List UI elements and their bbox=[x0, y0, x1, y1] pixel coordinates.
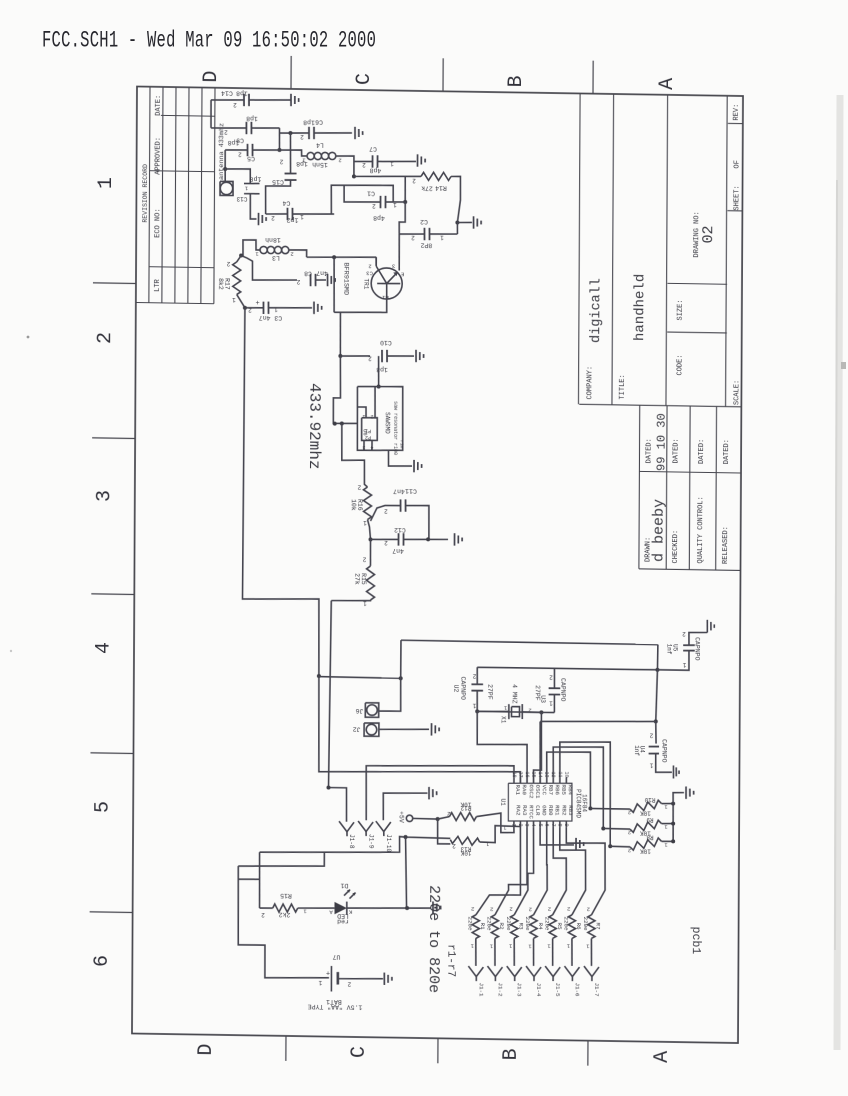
svg-text:R1: R1 bbox=[479, 923, 486, 931]
svg-text:R3: R3 bbox=[517, 923, 524, 931]
svg-text:CAPNPO: CAPNPO bbox=[459, 677, 466, 701]
ground bbox=[291, 94, 299, 107]
svg-text:2: 2 bbox=[357, 483, 361, 490]
svg-text:1: 1 bbox=[508, 943, 512, 950]
svg-text:D1: D1 bbox=[340, 882, 348, 889]
svg-text:2: 2 bbox=[370, 413, 373, 419]
saw resonator U6 SAWSMD bbox=[357, 386, 405, 455]
svg-text:REV:: REV: bbox=[733, 104, 741, 121]
svg-text:J1-1: J1-1 bbox=[478, 983, 485, 998]
svg-text:1: 1 bbox=[586, 943, 590, 950]
svg-text:2: 2 bbox=[529, 906, 532, 913]
svg-text:antenna 433mhz: antenna 433mhz bbox=[218, 123, 226, 180]
capacitor C9 bbox=[211, 114, 280, 144]
wire C6 branch bbox=[279, 131, 309, 135]
svg-text:2: 2 bbox=[94, 332, 117, 344]
resistor R16 10k bbox=[350, 483, 373, 541]
svg-text:J1-4: J1-4 bbox=[535, 983, 542, 998]
ground bbox=[673, 765, 679, 778]
wire long left bbox=[242, 308, 323, 678]
wire RB5 riser bbox=[559, 741, 610, 846]
svg-text:CHECKED:: CHECKED: bbox=[672, 530, 680, 564]
svg-text:2: 2 bbox=[261, 911, 265, 918]
svg-text:RB6: RB6 bbox=[554, 785, 561, 796]
svg-text:r1m: r1m bbox=[399, 440, 405, 448]
svg-text:U3: U3 bbox=[539, 695, 546, 703]
svg-text:d beeby: d beeby bbox=[651, 499, 668, 562]
svg-text:saw resonator r100: saw resonator r100 bbox=[392, 401, 398, 455]
ground bbox=[327, 274, 335, 287]
svg-text:C15: C15 bbox=[272, 178, 284, 185]
svg-text:DATED:: DATED: bbox=[723, 439, 731, 464]
ground bbox=[431, 723, 439, 736]
svg-text:2k2: 2k2 bbox=[279, 911, 291, 918]
ground bbox=[686, 786, 694, 799]
svg-text:C11: C11 bbox=[405, 487, 417, 494]
svg-text:C1: C1 bbox=[367, 189, 375, 196]
svg-text:2: 2 bbox=[372, 202, 376, 209]
svg-text:2: 2 bbox=[226, 260, 230, 267]
wire to RA0 bbox=[318, 676, 521, 783]
svg-text:10K: 10K bbox=[460, 849, 471, 856]
svg-text:C12: C12 bbox=[394, 526, 406, 533]
svg-text:C10: C10 bbox=[380, 339, 392, 346]
svg-text:R9: R9 bbox=[646, 816, 654, 823]
svg-text:2: 2 bbox=[238, 150, 242, 157]
svg-text:1: 1 bbox=[95, 177, 118, 189]
svg-text:U7: U7 bbox=[332, 953, 340, 960]
connector J1-8 bbox=[339, 821, 355, 849]
zone ticks bottom bbox=[286, 1036, 588, 1066]
svg-text:SHEET:: SHEET: bbox=[733, 185, 741, 210]
svg-text:10K: 10K bbox=[640, 847, 651, 854]
wire bbox=[277, 128, 281, 152]
svg-text:J1-5: J1-5 bbox=[554, 983, 561, 998]
svg-text:1p8: 1p8 bbox=[246, 115, 258, 122]
svg-text:1p8: 1p8 bbox=[236, 89, 248, 96]
wire to R2 bbox=[495, 826, 527, 915]
svg-text:P2: P2 bbox=[365, 434, 371, 440]
svg-text:J1-7: J1-7 bbox=[593, 983, 600, 998]
svg-text:C2: C2 bbox=[420, 218, 428, 225]
svg-text:C6: C6 bbox=[315, 118, 323, 125]
resistor R15 27k bbox=[331, 539, 375, 607]
zone ticks left bbox=[90, 283, 136, 913]
svg-text:L4: L4 bbox=[316, 141, 324, 148]
svg-text:RB5: RB5 bbox=[560, 785, 567, 796]
svg-text:1: 1 bbox=[682, 661, 686, 668]
svg-text:2: 2 bbox=[548, 906, 551, 913]
resistor R10 10K bbox=[588, 795, 673, 817]
capacitor C7 bbox=[354, 145, 416, 174]
svg-text:02: 02 bbox=[700, 225, 717, 243]
svg-text:2: 2 bbox=[271, 214, 275, 221]
wire RB7 riser bbox=[546, 751, 590, 808]
svg-text:1: 1 bbox=[318, 979, 322, 986]
svg-text:TR1: TR1 bbox=[362, 278, 369, 289]
zone ticks top bbox=[291, 56, 593, 94]
svg-text:2: 2 bbox=[411, 234, 415, 241]
svg-text:B1: B1 bbox=[381, 294, 388, 301]
revision record table bbox=[136, 87, 215, 304]
svg-text:RB1: RB1 bbox=[554, 805, 561, 816]
svg-text:1: 1 bbox=[393, 201, 397, 208]
svg-text:C7: C7 bbox=[369, 145, 377, 152]
svg-text:J2: J2 bbox=[353, 726, 361, 733]
connector J1-6 bbox=[564, 966, 580, 997]
resistor R9 10K bbox=[601, 815, 673, 837]
ground bbox=[454, 533, 462, 546]
svg-text:10: 10 bbox=[563, 772, 569, 778]
svg-text:4p8: 4p8 bbox=[373, 214, 385, 221]
wire J1-10 to ground bbox=[383, 792, 427, 820]
svg-text:3: 3 bbox=[362, 444, 365, 450]
connector J1-2 bbox=[487, 966, 503, 997]
svg-text:GND: GND bbox=[541, 805, 548, 816]
capacitor C2 8P2 bbox=[399, 202, 458, 249]
svg-text:X1: X1 bbox=[499, 716, 506, 724]
capacitor C14 bbox=[211, 89, 291, 109]
svg-text:2: 2 bbox=[549, 674, 553, 681]
svg-text:U4: U4 bbox=[639, 746, 646, 754]
resistor R13 10K bbox=[437, 819, 520, 857]
svg-text:C14: C14 bbox=[221, 89, 233, 96]
svg-text:220e: 220e bbox=[563, 917, 570, 932]
svg-text:2: 2 bbox=[649, 731, 653, 738]
svg-text:1: 1 bbox=[547, 943, 551, 950]
svg-text:2: 2 bbox=[279, 158, 283, 165]
svg-text:R5: R5 bbox=[556, 923, 563, 931]
wire bbox=[223, 150, 227, 171]
resistor R14 27k bbox=[354, 171, 461, 225]
svg-text:5: 5 bbox=[92, 801, 115, 813]
svg-text:1: 1 bbox=[549, 700, 553, 707]
svg-text:220e to 820e: 220e to 820e bbox=[425, 885, 443, 993]
svg-text:+: + bbox=[326, 971, 330, 979]
capacitor C10 1p8 bbox=[340, 338, 414, 373]
svg-text:2: 2 bbox=[412, 177, 416, 184]
svg-text:1p8: 1p8 bbox=[228, 139, 240, 146]
svg-text:220e: 220e bbox=[524, 917, 531, 932]
svg-text:2: 2 bbox=[233, 101, 237, 108]
resistor R3 220e bbox=[505, 905, 525, 966]
node U5 bbox=[655, 645, 659, 672]
antenna ANT1 433mhz bbox=[218, 123, 233, 196]
wire J1-8 drop bbox=[326, 601, 347, 822]
svg-text:J1-9: J1-9 bbox=[367, 834, 374, 849]
capacitor C1 4p8 bbox=[344, 175, 407, 221]
svg-text:REVISION RECORD: REVISION RECORD bbox=[142, 164, 149, 223]
connector J1-10 bbox=[376, 821, 392, 852]
svg-text:DATED:: DATED: bbox=[673, 438, 681, 463]
svg-text:1: 1 bbox=[255, 250, 259, 257]
svg-text:D: D bbox=[200, 70, 223, 82]
node +5V bbox=[398, 811, 440, 823]
ground bbox=[433, 901, 441, 914]
svg-text:2: 2 bbox=[300, 133, 304, 140]
svg-text:1: 1 bbox=[300, 213, 304, 220]
zone numerals left bbox=[91, 177, 118, 967]
svg-text:1: 1 bbox=[470, 942, 474, 949]
svg-text:VCC: VCC bbox=[541, 784, 548, 795]
capacitor U2 27PF CAPNPO bbox=[452, 672, 493, 709]
connector J1-7 bbox=[584, 966, 600, 997]
svg-text:BFR91SMD: BFR91SMD bbox=[342, 262, 350, 295]
svg-text:2: 2 bbox=[384, 539, 388, 546]
svg-text:8P2: 8P2 bbox=[421, 241, 433, 248]
svg-text:1p8: 1p8 bbox=[303, 118, 315, 125]
svg-text:R2: R2 bbox=[498, 923, 505, 931]
svg-text:2: 2 bbox=[490, 906, 493, 913]
svg-text:U2: U2 bbox=[453, 685, 460, 693]
label pcb1 bbox=[689, 927, 702, 955]
svg-text:r1-r7: r1-r7 bbox=[444, 944, 456, 977]
svg-text:SAWSMD: SAWSMD bbox=[384, 412, 391, 434]
connector J1-9 bbox=[358, 821, 375, 849]
svg-text:99 10 30: 99 10 30 bbox=[655, 413, 669, 471]
IC U1 PIC84SMD 16F84 bbox=[499, 771, 588, 829]
svg-text:J1-3: J1-3 bbox=[516, 983, 523, 998]
wire to R1 bbox=[476, 826, 521, 915]
wire antenna rail bbox=[210, 100, 212, 128]
capacitor C12 4n7 bbox=[370, 526, 448, 555]
resistor R2 220e bbox=[485, 905, 505, 966]
svg-text:4n7: 4n7 bbox=[393, 487, 405, 494]
svg-text:4n7: 4n7 bbox=[316, 269, 328, 276]
svg-text:1: 1 bbox=[362, 413, 365, 419]
svg-text:16: 16 bbox=[524, 772, 530, 778]
svg-text:A: A bbox=[656, 78, 679, 90]
svg-text:CLR: CLR bbox=[534, 805, 541, 816]
svg-text:2: 2 bbox=[509, 906, 512, 913]
ground bbox=[388, 450, 421, 472]
capacitor C11 4n7 bbox=[370, 487, 429, 540]
svg-text:CAPNPO: CAPNPO bbox=[559, 678, 566, 702]
svg-text:1: 1 bbox=[363, 519, 367, 526]
svg-text:R6: R6 bbox=[575, 923, 582, 931]
svg-text:2: 2 bbox=[384, 508, 388, 515]
svg-text:C3: C3 bbox=[366, 269, 373, 276]
svg-text:R15: R15 bbox=[280, 892, 292, 899]
svg-text:1: 1 bbox=[472, 702, 476, 709]
svg-text:4: 4 bbox=[92, 642, 115, 654]
capacitor C13 bbox=[225, 169, 262, 220]
svg-text:COMPANY:: COMPANY: bbox=[586, 366, 594, 400]
capacitor C15 bbox=[265, 133, 308, 215]
svg-text:A: A bbox=[651, 1051, 674, 1063]
connector J1-5 bbox=[545, 966, 561, 997]
title block texts bbox=[585, 101, 742, 564]
inductor L3 18nh bbox=[241, 236, 307, 262]
svg-text:LTR: LTR bbox=[154, 278, 162, 292]
svg-text:17: 17 bbox=[517, 772, 523, 778]
svg-text:handheld: handheld bbox=[632, 274, 648, 341]
wire battery loop bbox=[238, 832, 451, 980]
capacitor U3 27PF CAPNPO bbox=[534, 668, 567, 713]
svg-text:C: C bbox=[353, 73, 376, 85]
wire bbox=[331, 184, 393, 215]
svg-text:A: A bbox=[329, 909, 333, 916]
svg-text:C3 4n7: C3 4n7 bbox=[259, 314, 283, 321]
svg-text:220e: 220e bbox=[467, 917, 474, 932]
svg-text:5: 5 bbox=[537, 824, 543, 827]
capacitor C5 bbox=[225, 139, 279, 163]
svg-text:J1-2: J1-2 bbox=[497, 983, 504, 998]
connector J1-3 bbox=[507, 966, 523, 997]
resistor R5 220e bbox=[543, 905, 563, 966]
svg-text:RA2: RA2 bbox=[514, 805, 521, 816]
svg-text:2: 2 bbox=[587, 906, 590, 913]
svg-text:C8: C8 bbox=[304, 269, 312, 276]
capacitor C3 4n7 polarized bbox=[243, 300, 312, 322]
svg-text:C5: C5 bbox=[247, 155, 255, 162]
zone letters bottom bbox=[195, 1043, 674, 1063]
wire TR1 collector bbox=[398, 234, 400, 271]
svg-text:J1-6: J1-6 bbox=[574, 983, 581, 998]
node saw top bbox=[377, 356, 381, 389]
svg-text:4: 4 bbox=[370, 444, 373, 450]
resistor R8 10K bbox=[608, 833, 673, 855]
svg-text:1: 1 bbox=[440, 234, 444, 241]
svg-text:1: 1 bbox=[244, 184, 248, 191]
svg-text:RB0: RB0 bbox=[547, 805, 554, 816]
svg-text:2: 2 bbox=[368, 262, 371, 269]
ground bbox=[707, 620, 714, 633]
svg-text:2: 2 bbox=[248, 306, 252, 313]
svg-text:P1: P1 bbox=[365, 428, 371, 434]
svg-text:4p8: 4p8 bbox=[370, 166, 382, 173]
svg-text:2: 2 bbox=[471, 906, 474, 913]
svg-text:digicall: digicall bbox=[589, 278, 604, 343]
svg-text:27PF: 27PF bbox=[486, 684, 493, 700]
svg-text:4: 4 bbox=[530, 824, 536, 827]
connector J1-4 bbox=[526, 966, 542, 997]
LED D1 red bbox=[329, 882, 431, 926]
wire cross link bbox=[319, 675, 403, 680]
svg-text:L3: L3 bbox=[272, 254, 280, 261]
svg-text:RB2: RB2 bbox=[560, 805, 567, 816]
svg-text:SCALE:: SCALE: bbox=[733, 380, 741, 405]
svg-text:APPROVED:: APPROVED: bbox=[155, 137, 163, 175]
svg-text:3: 3 bbox=[524, 824, 530, 827]
svg-text:CAPNPO: CAPNPO bbox=[693, 637, 700, 661]
title block bbox=[578, 93, 743, 570]
svg-text:CODE:: CODE: bbox=[677, 354, 685, 375]
svg-text:B: B bbox=[500, 1048, 523, 1060]
svg-text:220e: 220e bbox=[543, 917, 550, 932]
big label 433.92mhz bbox=[305, 383, 323, 470]
svg-text:1: 1 bbox=[390, 160, 394, 167]
svg-text:R15: R15 bbox=[360, 573, 367, 585]
svg-text:C4: C4 bbox=[282, 199, 290, 206]
wire crystal rails bbox=[475, 667, 657, 716]
svg-text:QUALITY CONTROL:: QUALITY CONTROL: bbox=[697, 496, 705, 563]
svg-text:R8: R8 bbox=[646, 834, 654, 841]
svg-text:1: 1 bbox=[503, 705, 507, 712]
pad J2 bbox=[353, 723, 429, 738]
svg-text:220e: 220e bbox=[582, 917, 589, 932]
svg-text:RB7: RB7 bbox=[547, 784, 554, 795]
svg-text:DATE:: DATE: bbox=[155, 95, 163, 116]
ground bbox=[258, 213, 266, 226]
svg-text:J6: J6 bbox=[355, 707, 363, 714]
svg-text:pcb1: pcb1 bbox=[689, 927, 702, 955]
ground bbox=[355, 127, 363, 140]
battery BAT1 1.5V bbox=[308, 953, 384, 1011]
svg-text:U1: U1 bbox=[499, 799, 506, 807]
svg-text:1nf: 1nf bbox=[666, 644, 673, 655]
capacitor U5 1nf CAPNPO bbox=[657, 630, 707, 671]
wire J1-9 to RA1 bbox=[366, 763, 514, 822]
svg-text:14: 14 bbox=[537, 772, 543, 778]
svg-text:R14: R14 bbox=[435, 184, 447, 191]
svg-text:RTCC: RTCC bbox=[528, 805, 535, 820]
ground bbox=[429, 787, 437, 800]
svg-text:CAPNPO: CAPNPO bbox=[660, 739, 667, 763]
svg-text:1: 1 bbox=[664, 841, 668, 848]
wire TR1 base bbox=[307, 255, 377, 266]
ground bbox=[457, 216, 481, 229]
svg-text:RA0: RA0 bbox=[521, 784, 528, 795]
wire to R3 bbox=[514, 827, 534, 915]
svg-text:6: 6 bbox=[91, 955, 114, 967]
svg-text:B: B bbox=[505, 75, 528, 87]
wire OSC1 bbox=[533, 712, 541, 783]
svg-text:220e: 220e bbox=[505, 917, 512, 932]
svg-text:27k: 27k bbox=[421, 184, 433, 191]
svg-text:2: 2 bbox=[447, 810, 451, 817]
ground bbox=[384, 973, 392, 986]
resistor R1 220e bbox=[466, 905, 486, 966]
svg-text:9: 9 bbox=[563, 824, 569, 827]
label 220e to 820e r1-r7 bbox=[425, 885, 457, 994]
svg-text:RB4: RB4 bbox=[567, 785, 574, 796]
svg-text:1: 1 bbox=[528, 943, 532, 950]
resistor R6 220e bbox=[562, 905, 582, 966]
scan artifacts bbox=[837, 95, 840, 1050]
wire to R7 bbox=[566, 827, 606, 915]
ground bbox=[576, 838, 584, 851]
svg-text:1: 1 bbox=[566, 943, 570, 950]
wire switch bus bbox=[671, 792, 684, 843]
svg-text:2: 2 bbox=[296, 278, 300, 285]
svg-text:2: 2 bbox=[528, 706, 531, 713]
svg-text:+5V: +5V bbox=[398, 811, 405, 823]
svg-text:18nh: 18nh bbox=[265, 236, 281, 243]
svg-text:2: 2 bbox=[567, 906, 570, 913]
svg-text:4 MHZ: 4 MHZ bbox=[511, 684, 518, 704]
inductor L4 15nh bbox=[279, 141, 356, 179]
transistor TR1 BFR91SMD bbox=[342, 257, 405, 302]
svg-text:2: 2 bbox=[347, 981, 351, 988]
ground bbox=[314, 302, 322, 315]
svg-text:OSC1: OSC1 bbox=[534, 784, 541, 799]
svg-text:FCC.SCH1 - Wed Mar 09 16:50:02: FCC.SCH1 - Wed Mar 09 16:50:02 2000 bbox=[42, 28, 376, 54]
svg-text:RA1: RA1 bbox=[514, 784, 521, 795]
connector J1-1 bbox=[468, 966, 484, 997]
svg-text:220e: 220e bbox=[486, 917, 493, 932]
svg-text:1: 1 bbox=[489, 942, 493, 949]
wire to R16 bbox=[341, 423, 367, 487]
wire VCC rail bbox=[540, 668, 658, 785]
svg-text:2: 2 bbox=[682, 630, 686, 637]
wire saw left loop bbox=[333, 356, 358, 426]
svg-text:4n7: 4n7 bbox=[392, 547, 404, 554]
svg-text:1p8: 1p8 bbox=[250, 175, 262, 182]
svg-text:SIZE:: SIZE: bbox=[677, 299, 685, 320]
wire RB6 riser bbox=[553, 746, 604, 828]
svg-text:RA3: RA3 bbox=[521, 805, 528, 816]
